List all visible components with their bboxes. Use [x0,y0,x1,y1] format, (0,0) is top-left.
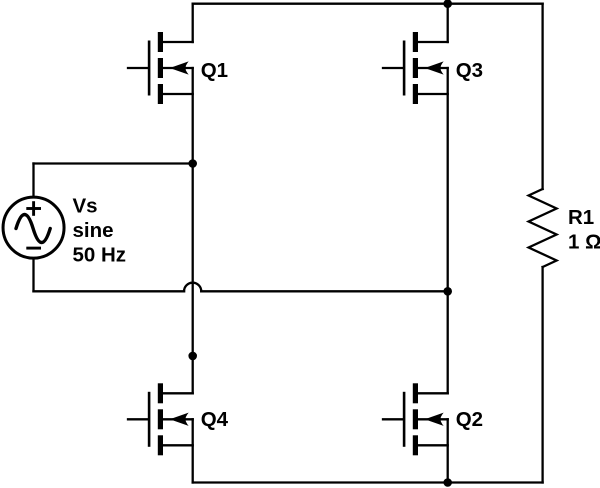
node dot: middle wire / Q3 source / Q2 drain [443,287,452,296]
Q3 drain lead [418,41,448,43]
wire: right riser from top rail to R1 [541,4,543,189]
Vs sine waveform [16,215,50,243]
Q1 drain lead [163,41,193,43]
Q2 channel bars [413,383,418,403]
transistor Q4 (NMOS, bottom-left) [128,383,193,455]
wire: middle wire right of hop [201,290,447,292]
Q1 channel bars [158,32,163,52]
Q2 drain lead [418,392,448,394]
Q4 channel bars [158,383,163,403]
Q3 body arrow [427,63,442,73]
Q2 body lead [418,418,448,420]
node dot: top rail / Q3 drain / R1 [443,0,452,8]
Q3 body lead [418,67,448,69]
Q3 channel bars [413,32,418,52]
Q4 gate plate [148,392,151,447]
Q1 body lead [163,67,193,69]
resistor R1 [529,189,557,267]
Q2 body arrow [427,414,442,424]
svg-text:Q3: Q3 [456,59,483,82]
Q1 gate stub [128,67,148,69]
voltage source Vs [3,197,64,258]
wire: Q1 drain riser to top rail [192,4,194,42]
Q4 body arrow [172,414,187,424]
Q3 source lead [418,93,448,95]
wire: Q4 source to bottom rail [192,419,194,482]
Q1 body arrow [172,63,187,73]
transistor Q2 (NMOS, bottom-right) [383,383,448,455]
wire: middle wire left of hop [34,290,185,292]
wire: mid-right vertical (Q3 source to Q2 drain) [447,68,449,393]
Q2 gate stub [383,418,403,420]
svg-text:Q2: Q2 [456,408,483,431]
svg-text:Q4: Q4 [201,408,229,431]
Q2 source lead [418,444,448,446]
svg-text:1 Ω: 1 Ω [568,231,600,254]
wire: Vs top lead vertical [32,164,34,196]
svg-text:R1: R1 [568,206,594,229]
wire: mid-left vertical (Q1 source to Q4 drain) [192,68,194,393]
Vs plus sign [26,201,41,216]
wire: Vs top lead horizontal [34,162,193,164]
Q4 source lead [163,444,193,446]
Vs minus sign [26,247,41,250]
transistor Q1 (NMOS, top-left) [128,32,193,104]
wire: right riser from R1 to bottom rail [541,267,543,483]
Q2 gate plate [403,392,406,447]
node dot: Vs top wire / mid-left vertical [188,159,197,168]
transistor Q3 (NMOS, top-right) [383,32,448,104]
Q4 body lead [163,418,193,420]
Q1 source lead [163,93,193,95]
Q3 gate stub [383,67,403,69]
wire: Vs bottom lead vertical [32,260,34,292]
wire: Q3 drain riser to top rail [447,4,449,42]
node dot: mid-left vertical junction [188,352,197,361]
wire: bottom rail [193,481,543,483]
Q4 gate stub [128,418,148,420]
Q4 drain lead [163,392,193,394]
wire: Q2 source to bottom rail [447,419,449,482]
svg-text:50 Hz: 50 Hz [73,244,127,267]
svg-text:Vs: Vs [73,194,98,217]
node dot: bottom rail / Q2 source [443,478,452,487]
wire: hop over mid-left vertical [184,283,201,292]
svg-text:Q1: Q1 [201,59,228,82]
svg-text:sine: sine [73,219,114,242]
Q1 gate plate [148,41,151,96]
wire: top rail [193,3,543,5]
Q3 gate plate [403,41,406,96]
